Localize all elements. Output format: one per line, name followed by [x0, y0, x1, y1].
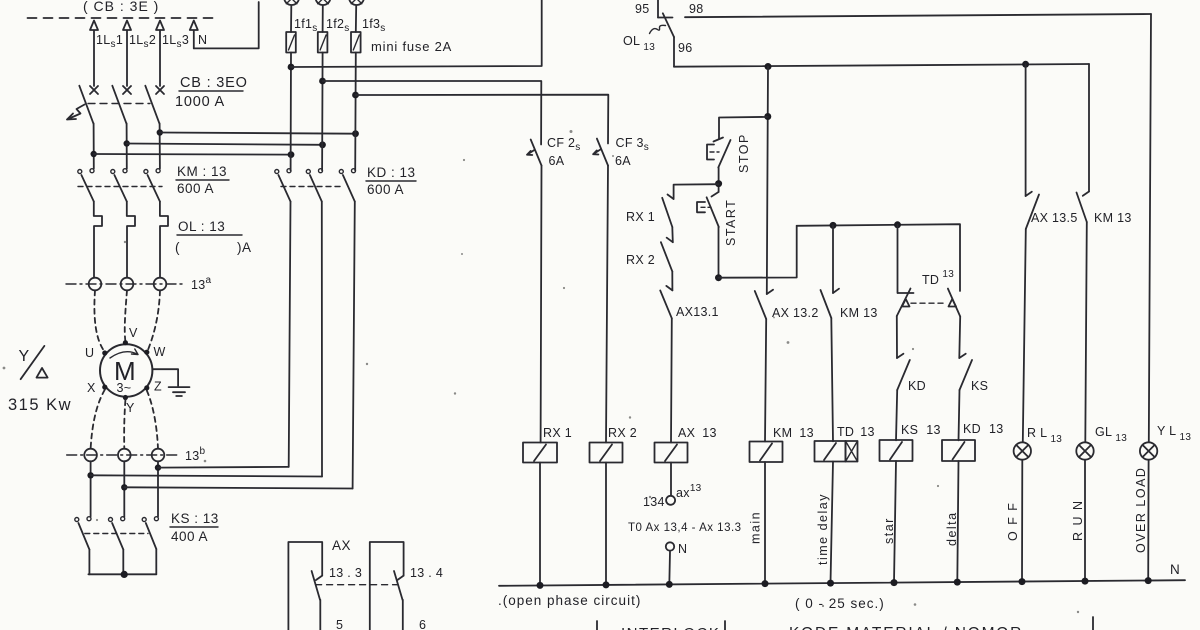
KS pole3 contact — [154, 517, 158, 521]
node fuse col3 tee — [352, 130, 359, 137]
table divider 2 — [724, 621, 726, 630]
wire AX coil to terminal 134 — [670, 463, 672, 496]
contact RX2 — [661, 238, 673, 272]
node rail TD-left — [894, 221, 901, 228]
arrow 1Ls3 — [156, 21, 164, 87]
svg-text:AX13.1: AX13.1 — [676, 305, 719, 319]
svg-text:RX 1: RX 1 — [543, 426, 572, 440]
terminal 134/ax13 — [666, 496, 675, 505]
contact AX13.5 — [1026, 192, 1039, 229]
svg-text:O F F: O F F — [1006, 502, 1020, 541]
node N-RX2 — [603, 581, 610, 588]
svg-text:CB : 3EO: CB : 3EO — [180, 75, 248, 91]
svg-text:OL : 13: OL : 13 — [178, 219, 225, 234]
wire start out to rail riser — [719, 226, 797, 278]
KM linkage dashed — [78, 186, 162, 188]
svg-text:5: 5 — [336, 618, 343, 630]
triangle TD right — [949, 299, 957, 307]
node phase3 tee — [157, 129, 163, 135]
motor terminal V — [123, 340, 128, 345]
svg-text:6A: 6A — [615, 154, 631, 168]
breaker CF2s blade — [531, 140, 542, 166]
wire phase1 to fuse column — [94, 153, 291, 156]
svg-text:KM : 13: KM : 13 — [177, 164, 227, 179]
svg-text:V: V — [129, 326, 138, 340]
wire phase3 breaker to KM — [159, 123, 161, 168]
ground wire — [153, 369, 179, 386]
node rail KM-aux — [830, 222, 837, 229]
terminal 13b dash-dot line — [67, 454, 177, 456]
contact AX13.1 — [660, 286, 672, 318]
wire dashed 13a to motor U — [94, 290, 104, 351]
wire KD coil to N — [957, 461, 958, 582]
wire START down — [718, 227, 720, 278]
svg-text:KODE MATERIAL / NOMOR: KODE MATERIAL / NOMOR — [789, 625, 1023, 630]
fuse 1f2 — [318, 32, 328, 53]
motor terminal Z — [144, 385, 149, 390]
node phase1 tee — [91, 151, 97, 157]
wire branch to STOP — [719, 117, 768, 139]
wire RX1-RX2 — [671, 227, 674, 242]
node 13b-2 tee — [121, 484, 127, 490]
terminal N stub — [666, 542, 674, 550]
svg-text:Z: Z — [154, 380, 162, 394]
svg-text:600 A: 600 A — [367, 182, 404, 197]
coil RX1 — [523, 443, 557, 463]
svg-text:AX 13.5: AX 13.5 — [1031, 211, 1078, 225]
node fuse1 branch — [288, 64, 295, 71]
overload contact OL13 95 wire — [657, 0, 659, 18]
wire phase3 to fuse column — [160, 133, 356, 134]
node N-RL — [1019, 578, 1026, 585]
node 96-main — [765, 63, 772, 70]
wire node to RX chain — [674, 184, 719, 199]
svg-text:W: W — [154, 345, 166, 359]
wire YL column — [1149, 14, 1151, 442]
svg-text:( CB : 3E ): ( CB : 3E ) — [83, 0, 159, 14]
wire dashed motor X to 13b — [91, 390, 105, 449]
terminal 13a-3 — [154, 278, 167, 291]
wire 13b-1 down to KS — [90, 461, 92, 516]
wire 98 rail — [685, 14, 1151, 17]
wire AX13.5 drop — [1025, 64, 1027, 196]
wire fuse2 branch to CF2s — [323, 81, 542, 145]
contact KM13 aux — [821, 289, 840, 318]
wire KM coil to N — [764, 462, 766, 584]
wire AX13.4 down — [402, 600, 404, 630]
node fuse3 branch — [352, 92, 359, 99]
svg-text:KM 13: KM 13 — [840, 306, 878, 320]
node N-KD — [954, 579, 961, 586]
table divider 3 — [1092, 617, 1094, 630]
svg-text:600 A: 600 A — [177, 181, 214, 196]
svg-text:N: N — [678, 542, 687, 556]
coil KD13 — [942, 440, 975, 461]
wire KM pole3 to OL — [160, 202, 168, 278]
terminal 13b-3 — [152, 449, 165, 462]
node 13b-1 tee — [87, 472, 93, 478]
wire KM pole2 to OL — [127, 202, 135, 278]
svg-text:6: 6 — [419, 618, 426, 630]
wire KM-aux drop — [832, 225, 834, 293]
svg-text:KS : 13: KS : 13 — [171, 511, 219, 526]
triangle TD left — [902, 299, 910, 307]
svg-text:134: 134 — [643, 495, 665, 509]
KS pole1 contact — [87, 517, 91, 521]
node 96-AX13.5 — [1022, 61, 1029, 68]
arrow 1Ls2 — [123, 21, 131, 87]
wire RX1 coil to N — [539, 463, 541, 586]
contact TD13 left — [897, 289, 914, 317]
svg-text:3~: 3~ — [117, 381, 132, 395]
pushbutton START — [697, 202, 705, 212]
wire lamp3 to fuse3 — [355, 6, 357, 32]
wire KD col3 down — [353, 202, 355, 489]
contact KM13 lamp branch — [1077, 192, 1090, 223]
wire delta crossover 1 to KD col2 — [91, 475, 322, 476]
svg-text:START: START — [724, 199, 738, 246]
contact KD interlock — [897, 354, 910, 390]
terminal 13b-1 — [84, 449, 97, 462]
OL13 trip squiggle — [650, 25, 666, 33]
lamp 1f3 top — [349, 0, 364, 5]
wire fuse3 branch to CF3s — [356, 95, 609, 144]
node N-RX1 — [537, 582, 544, 589]
svg-text:main: main — [749, 511, 763, 544]
svg-text:RX 1: RX 1 — [626, 210, 655, 224]
terminal 13a-1 — [89, 278, 102, 291]
node stop-start — [715, 180, 722, 187]
node fuse col1 tee — [288, 151, 295, 158]
coil AX13 — [655, 443, 688, 463]
KS linkage dashed — [85, 533, 148, 535]
pushbutton STOP — [707, 145, 714, 160]
svg-text:time delay: time delay — [816, 493, 830, 565]
wire TD-left drop — [897, 225, 899, 293]
svg-text:N: N — [1170, 562, 1180, 577]
svg-text:6A: 6A — [549, 154, 565, 168]
wire phase2 to fuse column — [127, 144, 323, 145]
wire dashed 13a to motor V — [125, 290, 127, 341]
wire 96 drop — [673, 37, 675, 67]
wire delta crossover 2 to KD col3 — [124, 487, 352, 488]
wire N stub to N rail — [668, 552, 671, 585]
KS pole2 contact — [121, 517, 125, 521]
terminal 13a-2 — [121, 278, 134, 291]
KD pole1 contact — [287, 169, 291, 173]
coil KM13 — [750, 442, 783, 463]
svg-text:400 A: 400 A — [171, 529, 208, 544]
svg-text:KM 13: KM 13 — [1094, 211, 1132, 225]
svg-text:delta: delta — [945, 511, 959, 546]
wire TD coil to N — [831, 462, 834, 584]
svg-text:N: N — [198, 33, 207, 47]
wire KS pole2 to star bar — [122, 550, 124, 575]
scan specks — [3, 130, 1080, 613]
node fuse2 branch — [319, 78, 326, 85]
arrow N — [190, 21, 198, 49]
wire main vertical from 96 — [767, 67, 768, 295]
node N-GL — [1082, 578, 1089, 585]
motor terminal Y — [123, 395, 128, 400]
wire 96 rail — [674, 64, 1089, 67]
wire KD col1 down — [289, 202, 291, 467]
svg-text:98: 98 — [689, 2, 704, 16]
breaker CB pole 1 blade — [79, 86, 93, 124]
wire lamp1 to fuse1 — [290, 6, 292, 32]
contact TD13 right — [948, 289, 960, 317]
svg-text:KD : 13: KD : 13 — [367, 165, 416, 180]
svg-text:mini fuse 2A: mini fuse 2A — [371, 39, 452, 54]
breaker CB pole 2 x-mark — [123, 86, 131, 94]
wire STOP to node — [718, 168, 720, 193]
svg-text:KD: KD — [908, 379, 926, 393]
svg-text:96: 96 — [678, 41, 693, 55]
rail y225 — [797, 224, 960, 291]
wire 13b-2 down to KS — [123, 461, 125, 517]
linkage TD dashed — [911, 302, 947, 304]
arrow 1Ls1 — [90, 21, 98, 87]
svg-text:Y: Y — [19, 348, 30, 365]
svg-text:KS: KS — [971, 379, 988, 393]
wire AX13.1 to AX coil — [670, 318, 673, 442]
OL13 contact blade — [658, 13, 674, 37]
lamp 1f2 top — [316, 0, 331, 5]
contact AX13.4 blade — [394, 571, 404, 600]
wire fuse col3 down — [354, 53, 357, 171]
wire KM-aux to TD coil — [831, 318, 833, 441]
wire CF2s to RX1 coil — [540, 166, 543, 443]
breaker linkage dashed — [88, 103, 150, 105]
wire 13b-3 down to KS — [157, 461, 159, 516]
wire KM13 lamp drop — [1088, 64, 1090, 192]
svg-text:AX: AX — [332, 538, 351, 553]
lamp 1f1 top — [284, 0, 299, 5]
motor terminal U — [102, 350, 107, 355]
node N-KS — [891, 579, 898, 586]
wire dashed 13a to motor W — [147, 290, 160, 351]
KM pole2 contact — [123, 169, 127, 173]
coil TD13 — [815, 441, 846, 462]
svg-text:AX 13.2: AX 13.2 — [772, 306, 819, 320]
lamp GL13 — [1076, 442, 1093, 459]
breaker CB pole 2 blade — [112, 86, 126, 124]
wire dashed motor Y to 13b — [124, 400, 125, 449]
svg-text:R U N: R U N — [1071, 499, 1085, 541]
node N-KM — [762, 580, 769, 587]
wire N bracket — [194, 2, 259, 48]
svg-text:X: X — [87, 381, 96, 395]
wire N rail — [499, 580, 1185, 586]
node star point — [121, 571, 128, 578]
wire KS coil to N — [894, 461, 896, 583]
motor terminal W — [144, 350, 149, 355]
KM pole1 contact — [90, 169, 94, 173]
wire AX13.5 to RL lamp — [1023, 229, 1026, 442]
breaker CF3s arrow — [593, 150, 600, 155]
svg-text:star: star — [882, 517, 896, 544]
wire dashed motor Z to 13b — [147, 391, 158, 449]
svg-text:.(open phase circuit): .(open phase circuit) — [498, 593, 641, 608]
wire RX2-AX13.1 — [671, 271, 673, 290]
svg-text:95: 95 — [635, 2, 650, 16]
wire fuse1 branch to top edge — [291, 0, 542, 67]
node N-TD — [827, 580, 834, 587]
wire KM pole1 to OL — [94, 202, 102, 278]
wire KM13 to GL lamp — [1085, 222, 1087, 442]
svg-text:13 . 4: 13 . 4 — [410, 566, 443, 580]
breaker CB pole 1 x-mark — [90, 86, 98, 94]
wire RX2 coil to N — [605, 463, 607, 585]
KM pole3 contact — [156, 169, 160, 173]
wire fuse col2 down — [321, 53, 324, 171]
table divider 1 — [596, 621, 598, 630]
node 13b-3 tee — [155, 464, 161, 470]
breaker CF3s blade — [597, 139, 608, 166]
svg-text:)A: )A — [237, 240, 252, 255]
wire GL to N — [1084, 460, 1086, 581]
bracket AX13.4 — [370, 542, 404, 630]
breaker CB pole 3 blade — [145, 86, 159, 124]
motor M circle — [100, 344, 152, 396]
svg-text:315 Kw: 315 Kw — [8, 396, 72, 414]
svg-text:RX 2: RX 2 — [626, 253, 655, 267]
fuse 1f3 — [351, 32, 361, 53]
star point bar — [88, 573, 156, 575]
svg-text:RX 2: RX 2 — [608, 426, 637, 440]
svg-text:INTERLOCK: INTERLOCK — [621, 625, 720, 630]
KD pole3 contact — [352, 169, 356, 173]
lamp YL13 — [1140, 442, 1157, 459]
coil RX2 — [590, 443, 623, 463]
node stop branch — [764, 113, 771, 120]
contact AX13.3 blade — [312, 571, 323, 600]
node phase2 tee — [124, 140, 130, 146]
wire lamp2 to fuse2 — [322, 6, 324, 32]
node N-AX — [666, 581, 673, 588]
wire TD-left to KD interlock — [896, 316, 898, 358]
contact KS interlock — [959, 354, 972, 390]
node start out — [715, 274, 722, 281]
contact AX13.2 — [755, 290, 773, 319]
wire phase1 breaker to KM — [93, 123, 95, 168]
wire KS interlock to KD coil — [959, 390, 960, 440]
wire delta crossover 3 to KD col1 — [158, 466, 289, 469]
svg-text:Y: Y — [126, 401, 135, 415]
lamp RL13 — [1014, 442, 1031, 459]
node N-YL — [1145, 577, 1152, 584]
linkage dashed AX13.3-13.4 — [316, 584, 398, 586]
wire fuse col1 down — [290, 53, 292, 171]
coil KS13 — [880, 440, 913, 461]
node fuse col2 tee — [319, 141, 326, 148]
wire AX13.2 to KM coil — [765, 319, 766, 442]
terminal 13b-2 — [118, 449, 131, 462]
breaker CB pole 3 x-mark — [156, 86, 164, 94]
wire KD col2 down — [321, 202, 323, 477]
svg-text:OVER LOAD: OVER LOAD — [1134, 467, 1148, 553]
incoming supply dashed line — [28, 17, 218, 19]
contact RX1 — [662, 195, 673, 228]
svg-text:T0 Ax 13,4 - Ax 13.3: T0 Ax 13,4 - Ax 13.3 — [628, 522, 742, 534]
wire KS pole3 to star bar — [155, 549, 157, 574]
wire phase2 breaker to KM — [126, 123, 128, 168]
svg-text:( 0 - 25 sec.): ( 0 - 25 sec.) — [795, 596, 885, 611]
svg-text:13 . 3: 13 . 3 — [329, 566, 362, 580]
svg-text:STOP: STOP — [737, 133, 751, 173]
wire TD-right to KS interlock — [958, 317, 961, 359]
KD pole2 contact — [319, 169, 323, 173]
motor rotation arrow — [110, 349, 138, 358]
svg-text:(: ( — [175, 240, 180, 255]
terminal 13a dash-dot line — [66, 283, 184, 285]
motor terminal X — [102, 385, 107, 390]
breaker trip arrow — [67, 105, 85, 120]
wire KS pole1 to star bar — [88, 550, 90, 575]
wire AX13.3 down — [319, 600, 321, 630]
wire RL to N — [1021, 460, 1023, 581]
wire KD interlock to KS coil — [896, 390, 897, 440]
fuse 1f1 — [286, 32, 296, 53]
svg-text:1000 A: 1000 A — [175, 94, 225, 110]
wire CF3s to RX2 coil — [606, 166, 608, 443]
ground symbol — [169, 387, 190, 396]
KD linkage dashed — [281, 186, 343, 188]
breaker CF2s arrow — [527, 150, 534, 155]
svg-text:U: U — [85, 346, 94, 360]
bracket AX13.3 — [288, 542, 322, 630]
wire YL to N — [1147, 460, 1149, 580]
